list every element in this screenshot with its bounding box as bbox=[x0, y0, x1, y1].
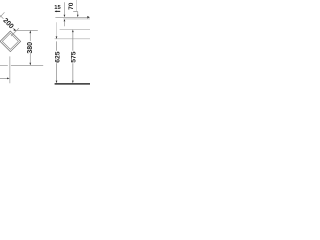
side view: vertical dim line x64 upper bbox=[63, 2, 65, 15]
side view: horizontal line level 2 bbox=[63, 18, 90, 20]
plan view: 200 dimension line end segment bbox=[13, 28, 16, 31]
side view: horizontal line level 3 bbox=[60, 28, 90, 30]
side view: horizontal line level 4 bbox=[55, 38, 90, 40]
side view: up arrowhead at line2 bbox=[64, 19, 66, 22]
plan view: 200 dimension line start segment bbox=[0, 15, 3, 18]
svg-text:200: 200 bbox=[1, 17, 14, 30]
side view: 625 dim line lower segment bbox=[56, 63, 58, 80]
side view: faint vertical extension top right bbox=[76, 0, 78, 11]
side view: 575 dim line lower segment bbox=[72, 63, 74, 80]
side view: 625 down arrowhead bbox=[56, 81, 58, 84]
side view: faint upper extension of 625 line bbox=[56, 22, 58, 39]
side view: 575 down arrowhead bbox=[72, 81, 74, 84]
plan view: lower-left dimension right arrowhead bbox=[7, 78, 10, 80]
side view: floor line bbox=[55, 83, 90, 85]
plan view: 380 down arrowhead bbox=[29, 63, 31, 66]
side view: down arrowhead at line1 bbox=[64, 15, 66, 17]
side view: 70 leader vertical bbox=[77, 12, 79, 16]
plan view: vertical extension line from basin bottom vertex bbox=[9, 56, 11, 83]
side view: 625 dim line upper segment bbox=[56, 41, 58, 50]
plan view: top extension line of 380 dim bbox=[16, 29, 38, 31]
plan view: lower-left dimension line bbox=[0, 77, 8, 79]
plan view: bottom extension line right part bbox=[11, 64, 43, 66]
plan view: 380 dimension line upper segment bbox=[29, 31, 31, 41]
side view: 625 up arrowhead bbox=[56, 36, 58, 39]
plan view: extension line at basin edge bbox=[11, 28, 19, 36]
svg-text:380: 380 bbox=[27, 42, 34, 54]
side view: small left arrowhead bbox=[55, 11, 57, 13]
svg-text:625: 625 bbox=[55, 51, 62, 63]
side view: right edge arrowhead on level1 bbox=[87, 16, 90, 19]
plan view: bottom extension line left part bbox=[0, 64, 8, 66]
side view: 575 dim line upper segment bbox=[72, 32, 74, 51]
side view: 70 leader horizontal bbox=[73, 11, 78, 13]
side view: vertical dim line x64 lower bbox=[63, 21, 65, 26]
side view: 575 up arrowhead bbox=[72, 30, 74, 33]
svg-text:15: 15 bbox=[54, 5, 61, 11]
side view: horizontal line level 1 bbox=[55, 16, 87, 18]
side view: small left arrow tail bbox=[55, 10, 60, 12]
svg-text:70: 70 bbox=[68, 2, 75, 10]
plan view: 380 dimension line lower segment bbox=[29, 54, 31, 66]
svg-text:575: 575 bbox=[70, 51, 77, 63]
plan view: corner basin outer rim (rotated square) bbox=[0, 31, 21, 51]
plan view: extension line upper-left bbox=[0, 12, 5, 17]
plan view: corner basin inner rim bbox=[2, 33, 18, 49]
side view: 70 leader down arrowhead bbox=[77, 15, 79, 17]
plan view: 380 up arrowhead bbox=[29, 31, 31, 34]
plan view: 200 dimension arrowhead bbox=[13, 29, 16, 32]
